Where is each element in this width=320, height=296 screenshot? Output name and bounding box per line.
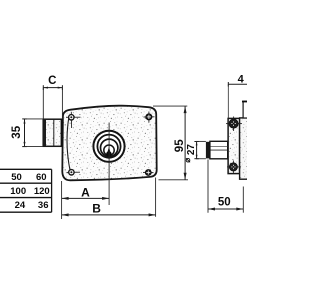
svg-text:A: A <box>81 185 90 199</box>
dimension 27 extension lines <box>196 141 206 158</box>
lock body (front view) <box>62 106 156 181</box>
B right extension line <box>155 178 157 217</box>
svg-text:B: B <box>92 202 101 216</box>
table row 2 <box>10 186 49 197</box>
svg-text:35: 35 <box>11 125 23 138</box>
svg-text:100: 100 <box>10 186 26 197</box>
table row 3 <box>15 200 49 211</box>
svg-text:120: 120 <box>34 186 50 197</box>
svg-text:50: 50 <box>11 172 22 183</box>
cylinder outer ring <box>93 131 124 162</box>
screw top-left <box>66 112 81 128</box>
dimension C extension lines <box>43 88 62 119</box>
svg-text:95: 95 <box>174 139 186 152</box>
dimension 95 extension lines <box>153 106 188 180</box>
screw bottom-right <box>143 170 154 176</box>
side screw lower <box>227 161 241 174</box>
latch bolt <box>43 119 62 147</box>
svg-text:27: 27 <box>186 144 197 156</box>
svg-text:C: C <box>48 75 56 87</box>
screw bottom-left <box>67 170 81 175</box>
dimension 35 extension lines <box>23 119 43 147</box>
dimension 35 line <box>22 119 27 147</box>
dimension B line with arrows <box>62 213 156 216</box>
dimension 50 extension lines <box>208 160 243 213</box>
svg-text:36: 36 <box>38 200 49 211</box>
screw top-right <box>144 112 155 123</box>
cylinder centerline <box>108 123 110 206</box>
cylinder ring 2 <box>97 135 120 158</box>
body inner left fold line <box>67 118 70 172</box>
dimension 4 extension line <box>227 84 229 118</box>
cylinder ring 3 <box>101 139 118 156</box>
side view: cylinder body <box>210 141 228 159</box>
keyhole <box>106 147 112 157</box>
dimension 27 line <box>194 142 198 159</box>
side view: cylinder knob <box>206 142 210 159</box>
dimension 50 line with arrows <box>208 208 243 211</box>
size table <box>0 169 52 212</box>
table row 1 <box>11 172 46 183</box>
dimension 4 line <box>228 82 247 87</box>
svg-text:⌀: ⌀ <box>183 158 192 163</box>
dimension C line <box>43 85 62 90</box>
svg-text:60: 60 <box>36 172 47 183</box>
cylinder plug <box>104 145 114 155</box>
svg-text:24: 24 <box>15 200 26 211</box>
svg-text:50: 50 <box>218 197 231 209</box>
dimension A line with arrows <box>62 197 110 200</box>
side view: case <box>240 118 249 179</box>
side view: top tab <box>242 101 249 118</box>
side screw upper <box>226 117 242 132</box>
side view: faceplate strip <box>228 118 240 173</box>
A/B left extension line <box>61 181 63 219</box>
dimension 95 line with arrows <box>184 106 187 180</box>
